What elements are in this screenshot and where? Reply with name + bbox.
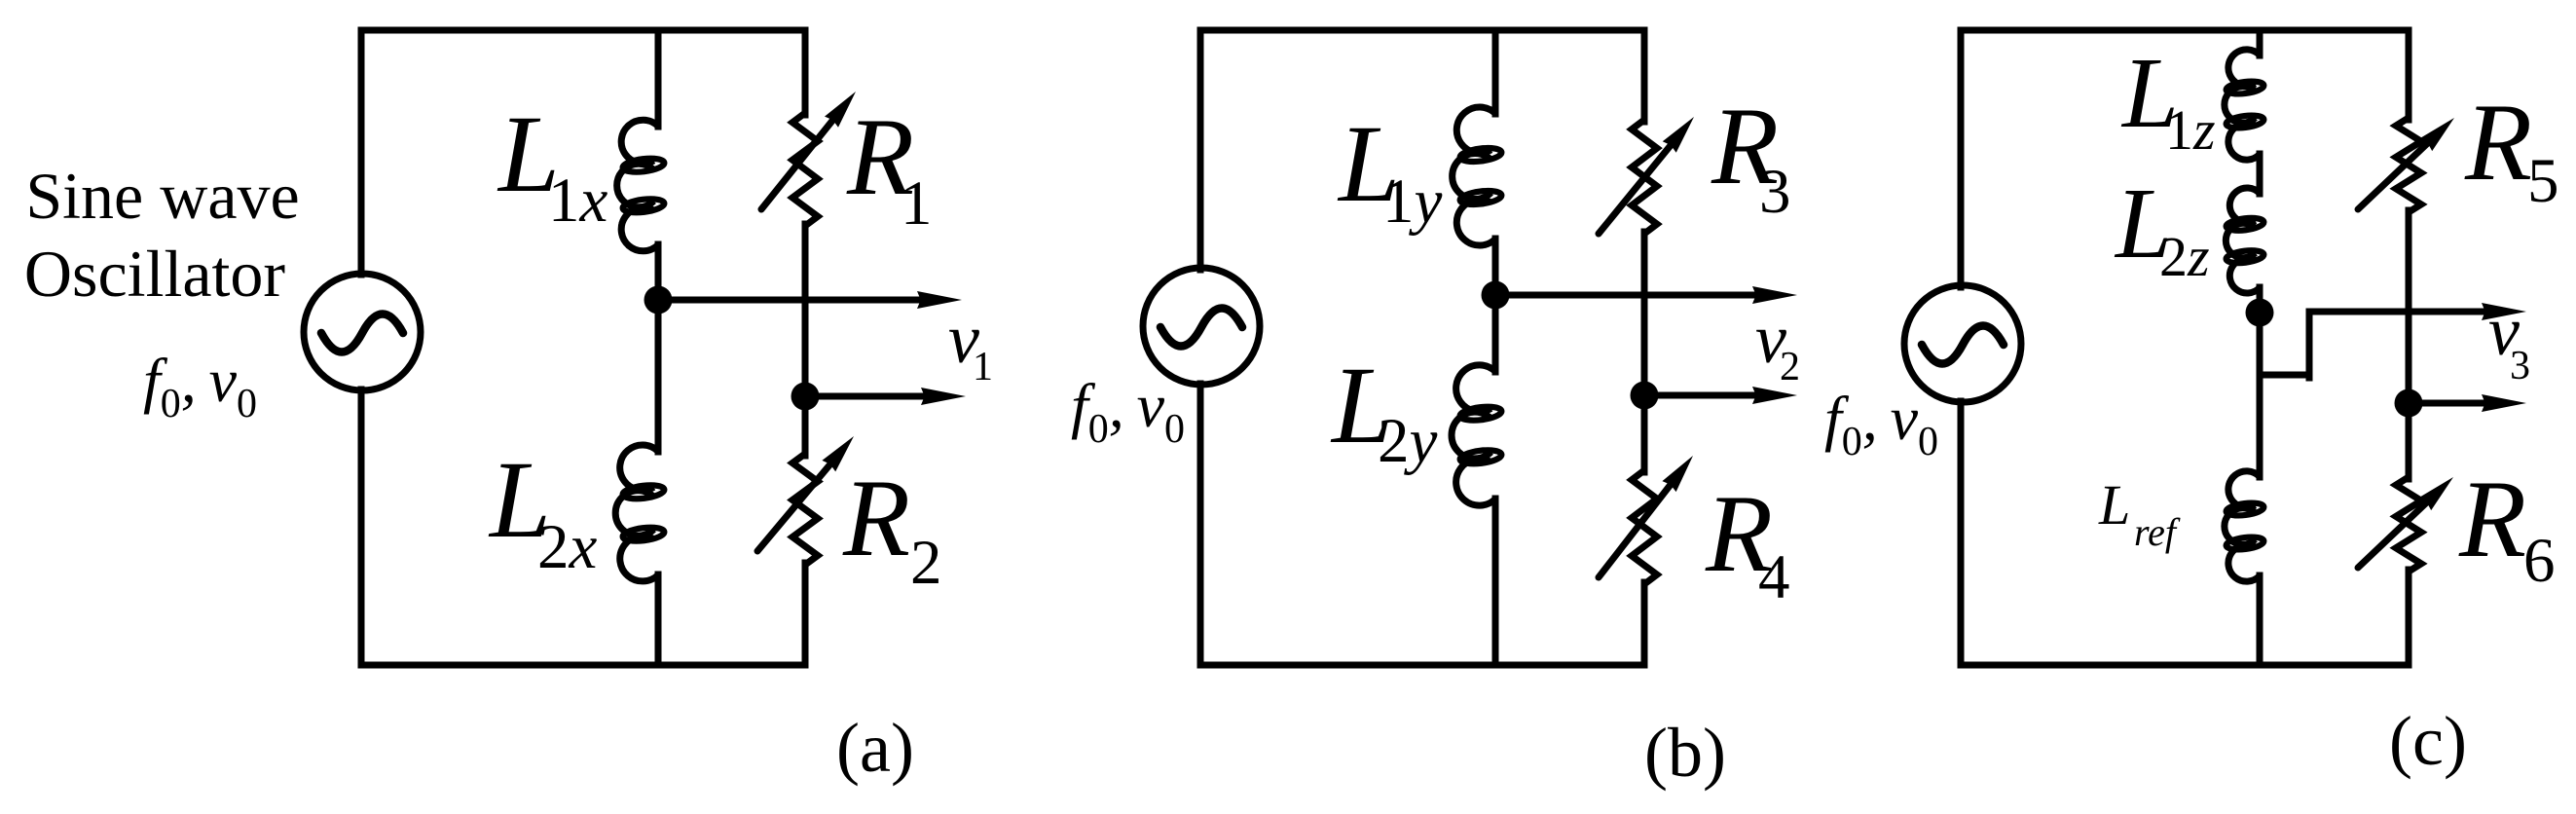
wire: circuit (c) top rail <box>1961 27 2409 34</box>
wire: circuit (c) right branch mid <box>2406 210 2412 479</box>
svg-text:4: 4 <box>1758 542 1790 612</box>
svg-text:ref: ref <box>2134 510 2181 554</box>
wire: circuit (a) right branch top <box>802 30 809 115</box>
wire: circuit (c) bottom rail <box>1961 662 2409 669</box>
wire: circuit (c) tap stub horizontal <box>2260 372 2309 379</box>
svg-text:2y: 2y <box>1378 406 1438 476</box>
wire: circuit (c) left branch upper <box>1958 30 1965 287</box>
inductor L2x <box>615 445 658 581</box>
wire: circuit (a) left branch upper <box>358 30 365 275</box>
svg-text:1: 1 <box>901 168 933 239</box>
inductor L2z <box>2226 188 2260 293</box>
wire: circuit (c) middle branch top <box>2257 30 2263 55</box>
inductor L2y <box>1452 365 1495 505</box>
output arrow v2 upper (from mid-tap node) <box>1495 292 1768 299</box>
svg-text:L: L <box>2098 473 2130 536</box>
variable resistor R3 <box>1632 120 1657 234</box>
node dot (c) divider mid-tap <box>2246 299 2274 327</box>
wire: circuit (c) tap step vertical <box>2306 312 2313 378</box>
svg-text:2: 2 <box>1780 345 1800 389</box>
wire: circuit (c) middle branch mid <box>2257 287 2263 477</box>
wire: circuit (c) middle branch between L1z,L2z <box>2257 154 2263 194</box>
wire: circuit (a) middle branch top <box>655 30 662 127</box>
svg-text:(c): (c) <box>2389 702 2467 780</box>
variable resistor R1 <box>792 113 818 226</box>
wire: circuit (b) right branch mid <box>1641 232 1648 472</box>
wire: circuit (c) right branch top <box>2406 30 2412 120</box>
wire: circuit (a) middle branch mid <box>655 244 662 452</box>
variable resistor R6 <box>2396 477 2421 572</box>
wire: circuit (a) middle branch bottom <box>655 574 662 665</box>
wire: circuit (b) right branch bottom <box>1641 582 1648 665</box>
svg-text:f0, v0: f0, v0 <box>1071 371 1185 452</box>
inductor L1x <box>617 120 658 251</box>
svg-text:f0, v0: f0, v0 <box>143 346 257 426</box>
svg-text:2: 2 <box>910 528 942 598</box>
sine-wave oscillator source (a) <box>304 274 421 390</box>
node dot (b) divider mid-tap <box>1482 281 1510 310</box>
wire: circuit (a) bottom rail <box>361 662 805 669</box>
output arrow v2 lower (from R-branch node) <box>1644 392 1768 399</box>
svg-text:1z: 1z <box>2165 98 2216 162</box>
wire: circuit (b) right branch top <box>1641 30 1648 122</box>
svg-text:(a): (a) <box>836 709 914 787</box>
wire: circuit (b) bottom rail <box>1200 662 1644 669</box>
wire: circuit (c) left branch lower <box>1958 401 1965 665</box>
svg-text:R: R <box>2458 459 2526 580</box>
svg-text:R: R <box>2464 82 2532 203</box>
node dot (c) on R branch <box>2395 389 2423 418</box>
wire: circuit (a) right branch bottom <box>802 563 809 665</box>
inductor L1z <box>2225 50 2260 160</box>
variable resistor R5 <box>2396 118 2421 212</box>
inductor L1y <box>1453 107 1495 245</box>
wire: circuit (a) top rail <box>361 27 805 34</box>
wire: circuit (b) middle branch top <box>1492 30 1499 114</box>
node dot (a) on R branch <box>791 383 820 411</box>
svg-text:2x: 2x <box>537 512 598 582</box>
wire: circuit (c) middle branch bottom <box>2257 575 2263 665</box>
svg-text:2z: 2z <box>2159 225 2210 288</box>
wire: circuit (b) left branch upper <box>1197 30 1204 270</box>
wire: circuit (a) right branch mid <box>802 224 809 456</box>
svg-text:1: 1 <box>973 345 993 389</box>
wire: circuit (b) left branch lower <box>1197 384 1204 665</box>
svg-text:6: 6 <box>2523 526 2556 596</box>
wire: circuit (b) middle branch mid <box>1492 239 1499 372</box>
svg-text:Oscillator: Oscillator <box>24 237 286 311</box>
svg-text:Sine wave: Sine wave <box>25 159 299 233</box>
variable resistor R4 <box>1632 470 1657 584</box>
svg-text:R: R <box>842 458 910 579</box>
wire: circuit (b) middle branch bottom <box>1492 499 1499 665</box>
svg-text:f0, v0: f0, v0 <box>1824 384 1938 464</box>
svg-text:1y: 1y <box>1382 166 1443 237</box>
output arrow v3 lower (from R-branch node) <box>2409 400 2497 407</box>
inductor Lref <box>2225 471 2260 581</box>
output arrow v1 lower (from R-branch node) <box>805 393 937 400</box>
wire: circuit (a) left branch lower <box>358 389 365 665</box>
svg-text:1x: 1x <box>548 166 608 236</box>
svg-text:5: 5 <box>2527 146 2559 216</box>
output arrow v3 upper (from tap step) <box>2309 309 2497 315</box>
node dot (a) divider mid-tap <box>644 286 673 314</box>
sine-wave oscillator source (c) <box>1904 285 2021 402</box>
variable resistor R2 <box>792 454 818 565</box>
sine-wave oscillator source (b) <box>1143 268 1260 385</box>
wire: circuit (b) top rail <box>1200 27 1644 34</box>
svg-text:3: 3 <box>2510 344 2530 388</box>
wire: circuit (c) right branch bottom <box>2406 570 2412 665</box>
output arrow v1 upper (from mid-tap node) <box>658 297 933 304</box>
svg-text:3: 3 <box>1759 157 1791 227</box>
svg-text:(b): (b) <box>1644 714 1726 792</box>
node dot (b) on R branch <box>1631 382 1659 410</box>
